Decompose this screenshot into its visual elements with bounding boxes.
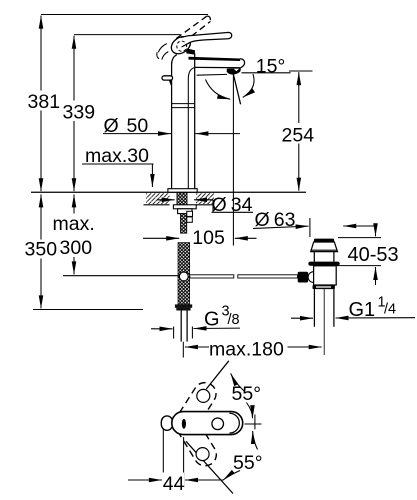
faucet body joint lines [172,103,195,105]
faucet spout top thick bar [189,57,241,61]
waste socket arc [308,272,313,283]
svg-text:G: G [204,309,220,331]
dimension 105 [143,237,179,239]
dimension 254 [289,70,313,72]
svg-text:350: 350 [25,239,58,261]
wire extension line top 381 [41,14,208,16]
wire max300 reference line [63,275,181,277]
faucet side tab wedge [169,80,172,86]
svg-text:Ø: Ø [212,194,227,216]
pop-up rod segment 1 [190,275,234,278]
faucet spout bottom edge [195,66,241,68]
faucet side tab [162,76,173,80]
G3/8 connector nut [175,304,192,307]
handle inner seam [229,413,239,433]
threaded shank through deck [177,192,187,205]
svg-text:300: 300 [60,237,93,259]
faucet spout bottom band [197,73,227,76]
handle top view knob [161,416,172,430]
handle top view dashed rotated down [174,414,220,470]
pop-up rod segment 2 [238,275,298,278]
hose nipple lower [187,217,193,222]
svg-text:105: 105 [192,227,225,249]
faucet lever dashed raised position [176,16,210,42]
faucet base flange [168,189,197,193]
lever knob [168,33,194,57]
faucet body left edge [172,55,177,189]
svg-text:max.: max. [53,213,95,235]
lever motion marks [158,44,167,53]
faucet neck inner corner [188,67,195,188]
svg-text:381: 381 [28,91,61,113]
rod ball joint at hose [179,272,188,281]
waste extension line bottom 40-53 [336,265,382,267]
waste neck [313,252,315,262]
handle top view dashed rotated up [173,378,220,434]
lever knob dashed ellipse [175,39,188,53]
waste plug cap [314,239,334,242]
max180 left extension stub [182,342,184,358]
hose nipple upper [187,211,193,216]
dimension 350 vertical [40,194,42,308]
svg-text:/4: /4 [384,302,396,318]
G3/8 extension stubs [173,327,175,339]
waste tailpipe walls [313,289,315,327]
faucet spout nose [240,59,244,68]
faucet lever pivot boss [186,48,195,54]
15 degree left leader arc [206,80,231,100]
svg-text:339: 339 [63,102,96,124]
waste body [314,266,337,285]
handle reference line [245,423,262,425]
handle top view body [172,412,243,435]
lever knob crease [187,44,191,51]
waste seal ring [308,262,339,266]
aerator [227,68,241,75]
dimension G1 1/4 [291,317,313,319]
svg-text:34: 34 [231,194,253,216]
55 upper ray [206,361,229,389]
faucet body right edge [194,54,196,189]
svg-text:44: 44 [163,473,185,495]
deck bottom line left [144,204,170,206]
deck bottom line right [196,204,213,206]
dimension max.300 vertical [73,194,75,274]
waste slip nut [313,285,335,289]
waste extension line top 40-53 [338,237,381,239]
deck section hatch left [146,193,170,204]
55 lower leader arc 2 [223,471,240,480]
faucet lever handle solid blade [182,32,232,46]
svg-text:max.180: max.180 [209,339,284,361]
waste rod clevis block [298,272,308,283]
label 44 [162,473,184,492]
dimension 381 vertical [40,16,42,192]
deck section hatch right [196,193,214,204]
lower dashed handle hole [196,448,209,461]
threaded rod below nut [180,214,186,234]
15 degree right leader arc [243,74,254,97]
40-53 top arrow [375,226,377,236]
Ø34 leader arrows [157,199,175,201]
svg-text:254: 254 [282,125,315,147]
mounting nut [178,209,192,214]
aerator vertical datum line [232,74,234,246]
deck top line [31,191,306,193]
15 degree spray line [233,74,240,104]
wire extension line 339 [74,34,181,36]
dimension max.180 [185,346,209,348]
dimension 44 [128,479,162,481]
waste tailpipe centerline [323,289,325,355]
55 upper leader arc 1 [231,373,245,391]
waste extension line left [309,218,311,237]
upper dashed handle hole [197,389,210,402]
svg-text:15°: 15° [256,56,285,78]
svg-text:55°: 55° [233,452,263,474]
wire bottom reference line 350 [33,309,143,311]
40-53 bottom arrow [375,267,377,285]
svg-text:G1: G1 [349,299,376,321]
Ø63 right arrow [343,225,376,227]
supply hose braided [178,243,190,305]
waste flange cone [311,242,338,252]
washer under deck [173,205,196,209]
handle hole [212,418,224,430]
55 lower ray [186,441,233,493]
dimension 339 vertical [73,36,75,192]
handle dot [182,419,186,429]
svg-text:40-53: 40-53 [348,244,399,266]
55 upper leader arc 2 [247,403,253,419]
dimension G3/8 [151,328,173,330]
dimension 44 extension lines [162,429,164,488]
svg-text:55°: 55° [232,383,262,405]
55 lower leader arc 1 [253,431,258,450]
svg-text:/8: /8 [228,312,240,328]
supply tube [180,311,182,342]
